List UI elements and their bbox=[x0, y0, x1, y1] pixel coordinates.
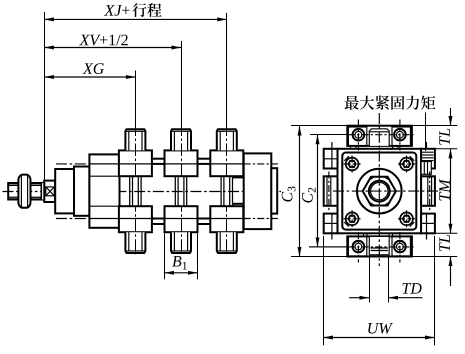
lower port line solid through blocks bbox=[89, 218, 243, 220]
top block right screw pocket bbox=[392, 127, 410, 146]
second station upper valve block bbox=[165, 150, 198, 176]
top block right bolt bbox=[394, 129, 406, 141]
bottom-left tie rod ear bbox=[324, 214, 338, 234]
rod hex nut (end view) bbox=[363, 177, 396, 206]
upper port centerline through end cap bbox=[244, 163, 279, 165]
bottom block right bolt bbox=[394, 241, 406, 253]
right side tab boss bbox=[421, 176, 435, 206]
bottom port boss bbox=[369, 236, 389, 254]
first station lower valve block bbox=[119, 206, 152, 232]
bottom bolts horizontal centerline bbox=[309, 246, 348, 248]
bottom block right screw pocket bbox=[392, 236, 410, 256]
second station lower valve block bbox=[165, 206, 198, 232]
cylinder body square with rounded corners bbox=[342, 153, 416, 230]
collar between third station and end cap bbox=[233, 176, 244, 178]
bottom-right tie rod ear bbox=[421, 214, 435, 234]
main horizontal centerline of side view bbox=[3, 191, 282, 193]
rear end plate bbox=[271, 168, 277, 213]
first station upper valve block bbox=[119, 150, 152, 176]
label TL top bbox=[439, 129, 449, 145]
label XG bbox=[82, 63, 104, 74]
third station tie rods bbox=[220, 176, 222, 206]
central gland boss circle bbox=[357, 169, 402, 214]
C3 bottom extension line bbox=[291, 256, 457, 258]
connection nubs above bottom block bbox=[363, 233, 365, 236]
left tab centerline bbox=[328, 172, 330, 211]
top-left tie rod ear bbox=[324, 149, 338, 169]
TL bottom: arrow below bbox=[450, 257, 452, 287]
bottom manifold block bbox=[347, 236, 412, 256]
upper connecting port stub bbox=[152, 158, 165, 160]
rear end cap body bbox=[244, 153, 272, 229]
label UW bbox=[368, 323, 393, 334]
rod circles bbox=[369, 181, 390, 202]
third station lower valve block bbox=[210, 206, 243, 232]
washer at rod shoulder bbox=[42, 183, 45, 201]
TL top: arrow above bbox=[450, 108, 452, 126]
rod gland with crossed seal box bbox=[44, 181, 55, 202]
flange top extension line bbox=[421, 148, 457, 150]
flange bottom extension line bbox=[435, 232, 457, 234]
label max tightening torque bbox=[345, 96, 359, 110]
label XV+1/2 bbox=[79, 35, 128, 46]
top bolt vertical centerlines bbox=[357, 120, 359, 151]
second station tie rods bbox=[174, 176, 176, 206]
C2 top extension line bbox=[310, 134, 347, 136]
threaded piston rod bbox=[8, 183, 41, 185]
bottom block left bolt bbox=[353, 241, 365, 253]
label C3 bbox=[282, 187, 296, 202]
dimension TM (with shared arrows) bbox=[450, 149, 452, 234]
dimension B1 bbox=[165, 272, 198, 274]
lower port centerline through end cap bbox=[244, 218, 279, 220]
front step flange large bbox=[74, 167, 89, 216]
lower connecting port stub bbox=[152, 218, 165, 220]
dimension TD outside arrows bbox=[349, 297, 369, 299]
C3 top extension line (also top of manifold blocks) bbox=[291, 125, 457, 127]
bottom block left screw pocket bbox=[348, 236, 366, 256]
C2 bottom extension line bbox=[309, 246, 347, 248]
top bolts horizontal centerline bbox=[310, 134, 348, 136]
flange square plate bbox=[338, 149, 422, 234]
four corner socket screws bbox=[346, 158, 359, 171]
front step flange small bbox=[55, 169, 74, 213]
right tab centerline bbox=[429, 172, 431, 211]
hex jam nut on rod bbox=[18, 175, 30, 208]
lower connecting port stub bbox=[198, 218, 211, 220]
top block left bolt bbox=[353, 129, 365, 141]
left extension line for stroke dimensions bbox=[44, 12, 46, 181]
upper port line solid through blocks bbox=[89, 163, 243, 165]
right view horizontal centerline bbox=[333, 190, 441, 192]
leader line for torque note bbox=[425, 113, 427, 152]
top block left screw pocket bbox=[348, 127, 366, 146]
label TM bbox=[439, 179, 449, 201]
front head block bbox=[89, 154, 119, 227]
label B1 bbox=[172, 256, 187, 269]
connection nubs under top block bbox=[350, 146, 352, 149]
second station top hex plug bbox=[171, 129, 191, 150]
dimension C2 bbox=[317, 135, 319, 247]
UW extension lines bbox=[323, 236, 325, 345]
first station vertical centerline / extension bbox=[135, 71, 137, 129]
upper connecting port stub bbox=[198, 158, 211, 160]
dimension XG bbox=[44, 76, 135, 78]
right view vertical centerline bbox=[378, 113, 380, 266]
label stroke (xingcheng) bbox=[132, 3, 146, 17]
dimension UW bbox=[324, 337, 435, 339]
label XJ+ bbox=[104, 5, 130, 16]
dimension C3 bbox=[299, 126, 301, 257]
B1 extension lines bbox=[164, 234, 166, 280]
first station bottom hex plug bbox=[125, 232, 145, 253]
third station bottom hex plug bbox=[217, 232, 237, 253]
second station vertical centerline / extension bbox=[181, 41, 183, 129]
label TD bbox=[403, 283, 422, 294]
first station top hex plug bbox=[125, 129, 145, 150]
dimension XV+1/2 bbox=[44, 47, 181, 49]
first station tie rods bbox=[129, 176, 131, 206]
top port boss with chamfer bbox=[369, 129, 389, 146]
TD extension lines bbox=[369, 258, 371, 303]
left side tab boss bbox=[324, 176, 338, 206]
top manifold block bbox=[347, 126, 412, 146]
third station vertical centerline / extension bbox=[226, 13, 228, 129]
second station bottom hex plug bbox=[171, 232, 191, 253]
top-right tie rod ear with threaded torque screw bbox=[421, 149, 435, 169]
third station upper valve block bbox=[210, 150, 243, 176]
label TL bottom bbox=[439, 235, 449, 251]
upper port centerline left segment bbox=[56, 163, 89, 165]
bottom bolt vertical centerlines bbox=[357, 232, 359, 263]
lower port centerline left segment bbox=[56, 218, 89, 220]
hex corner chamfers bbox=[369, 177, 374, 180]
label C2 bbox=[302, 188, 316, 203]
dimension XJ+stroke bbox=[44, 18, 227, 20]
third station top hex plug bbox=[217, 129, 237, 150]
